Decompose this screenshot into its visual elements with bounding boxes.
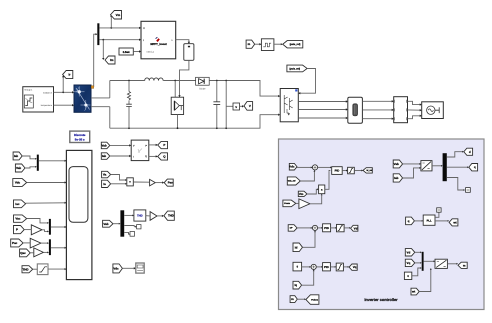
- svg-text:Iab: Iab: [394, 176, 398, 180]
- svg-text:Vab: Vab: [394, 162, 399, 166]
- svg-text:Vdc: Vdc: [113, 266, 119, 270]
- svg-text:wt: wt: [411, 290, 415, 294]
- svg-text:Vab: Vab: [16, 166, 21, 170]
- svg-text:m: m: [248, 42, 251, 46]
- svg-text:Pnom: Pnom: [284, 202, 290, 205]
- svg-text:d: d: [469, 150, 471, 154]
- svg-text:[puls_ref]: [puls_ref]: [290, 43, 301, 46]
- svg-text:irradiance: irradiance: [43, 91, 53, 94]
- svg-text:Vdc: Vdc: [289, 165, 295, 169]
- svg-text:Pac: Pac: [12, 241, 18, 245]
- svg-text:q: q: [474, 165, 476, 169]
- svg-text:PID: PID: [324, 226, 329, 230]
- svg-text:V: V: [249, 104, 251, 108]
- svg-text:Va: Va: [103, 173, 107, 177]
- svg-text:P: P: [163, 143, 165, 147]
- svg-text:P: P: [16, 228, 18, 232]
- svg-text:Pav: Pav: [168, 181, 174, 185]
- svg-text:PID: PID: [324, 265, 329, 269]
- svg-text:PID: PID: [335, 169, 340, 173]
- svg-text:Vd: Vd: [354, 226, 358, 230]
- svg-text:Vm: Vm: [299, 192, 304, 196]
- svg-text:MPPT_boost: MPPT_boost: [150, 43, 166, 46]
- svg-text:THD: THD: [168, 214, 174, 218]
- svg-text:Group 1: Group 1: [25, 88, 34, 91]
- svg-text:Iac: Iac: [15, 202, 19, 206]
- svg-text:Vm: Vm: [116, 13, 121, 17]
- svg-text:Q: Q: [145, 155, 147, 158]
- svg-text:Iab: Iab: [14, 154, 18, 158]
- svg-text:rated_p: rated_p: [147, 51, 155, 54]
- svg-text:Iq: Iq: [295, 283, 298, 287]
- svg-text:q: q: [408, 219, 410, 223]
- svg-text:Vab: Vab: [103, 222, 108, 226]
- svg-text:Vdc: Vdc: [15, 181, 21, 185]
- svg-text:Vdc_ref: Vdc_ref: [288, 180, 296, 183]
- svg-text:Id*: Id*: [290, 227, 293, 230]
- svg-text:[puls_ref]: [puls_ref]: [290, 67, 301, 70]
- svg-text:Vd: Vd: [407, 250, 411, 254]
- svg-text:Id_ref: Id_ref: [366, 169, 372, 172]
- svg-text:temperature: temperature: [41, 104, 53, 107]
- svg-text:m: m: [291, 297, 294, 301]
- svg-text:Diode: Diode: [199, 87, 206, 90]
- svg-text:Iab: Iab: [102, 154, 106, 158]
- svg-text:wt: wt: [452, 220, 456, 224]
- svg-text:Im: Im: [110, 58, 114, 62]
- svg-text:Vq: Vq: [407, 261, 411, 265]
- svg-text:Inverter controller: Inverter controller: [364, 297, 398, 302]
- svg-text:PLL: PLL: [427, 220, 432, 223]
- svg-text:Id: Id: [295, 245, 298, 249]
- svg-text:Pulses: Pulses: [311, 298, 319, 301]
- svg-text:Vab: Vab: [101, 143, 106, 147]
- svg-text:5e-05 s: 5e-05 s: [75, 137, 85, 141]
- svg-text:0.5e4: 0.5e4: [123, 51, 130, 54]
- svg-text:Ia: Ia: [103, 182, 106, 186]
- svg-text:Qac: Qac: [20, 251, 26, 255]
- svg-text:THD: THD: [137, 215, 143, 218]
- svg-text:m: m: [463, 263, 466, 267]
- svg-text:THD: THD: [23, 267, 29, 271]
- svg-text:Vac: Vac: [15, 217, 20, 221]
- svg-text:Vq: Vq: [353, 265, 357, 269]
